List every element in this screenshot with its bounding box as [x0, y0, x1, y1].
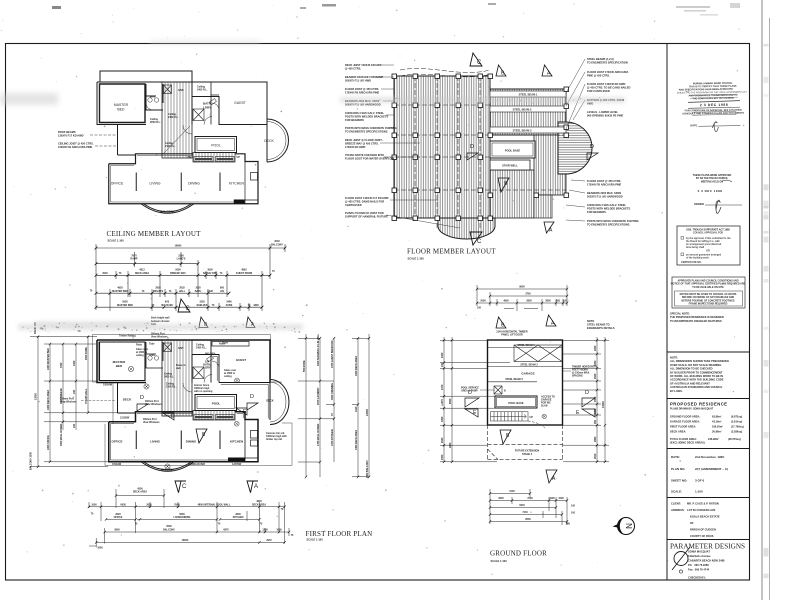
svg-text:190: 190: [73, 423, 76, 428]
fm dashed grid horizontals: [394, 68, 566, 230]
fm left leader lines: [375, 65, 460, 228]
svg-text:3700: 3700: [525, 293, 531, 296]
svg-text:LOT 60 CUDGERA AVE: LOT 60 CUDGERA AVE: [687, 508, 716, 512]
svg-text:70: 70: [142, 290, 145, 293]
ff guest robe box: [212, 342, 249, 347]
svg-text:70: 70: [248, 304, 251, 307]
svg-text:OVER SCALE. DO NOT SCALE DRAW: OVER SCALE. DO NOT SCALE DRAWING.: [670, 363, 722, 367]
svg-text:2nd November, 1995.: 2nd November, 1995.: [695, 455, 725, 459]
room divider stub living/dining: [180, 173, 182, 192]
svg-text:2400 R.L.: 2400 R.L.: [196, 347, 207, 350]
svg-text:TO ENGINEER'S SPECIFICATION: TO ENGINEER'S SPECIFICATION: [587, 60, 628, 64]
svg-text:170X45 FB ARICAURA PINE: 170X45 FB ARICAURA PINE: [345, 90, 380, 94]
eave outline thin: [93, 335, 293, 466]
svg-text:TO ENGINEER'S SPECIFICATIONS: TO ENGINEER'S SPECIFICATIONS: [587, 223, 630, 227]
svg-text:170X45 FB ARICAURA PINE: 170X45 FB ARICAURA PINE: [587, 182, 622, 186]
svg-text:POOL: POOL: [212, 402, 221, 406]
svg-text:POSTS WITH WELDED BRACKETS: POSTS WITH WELDED BRACKETS: [587, 206, 630, 210]
svg-text:13000: 13000: [35, 393, 38, 400]
svg-text:LIVING/DINING: LIVING/DINING: [173, 516, 190, 519]
gf marker A bottom: [546, 470, 557, 483]
svg-text:4200: 4200: [449, 442, 452, 448]
dim row 2 line ramp/lands: [96, 263, 198, 265]
svg-text:2/(7 (AMENDMENT – A): 2/(7 (AMENDMENT – A): [695, 467, 728, 471]
svg-text:FIRST FLOOR PLAN: FIRST FLOOR PLAN: [306, 530, 373, 538]
svg-text:2800: 2800: [526, 300, 532, 303]
svg-text:OFFICE: OFFICE: [114, 516, 123, 519]
ff bottom dimension rows: [89, 489, 289, 548]
fm marker C bottom: [470, 232, 482, 245]
ff laundry smudge boxes: [194, 415, 234, 420]
fm right mid block hatched: [534, 135, 566, 195]
svg-text:CEILING JOIST @ 450 CTRS.: CEILING JOIST @ 450 CTRS.: [58, 142, 94, 146]
gf right vertical chain: [563, 337, 609, 462]
svg-text:LDRY: LDRY: [204, 366, 211, 370]
divider 1: [667, 351, 750, 353]
svg-text:100: 100: [571, 512, 576, 515]
svg-text:C: C: [182, 484, 187, 490]
laundry smudge boxes under stairs: [194, 157, 234, 162]
guest room walls: [211, 82, 219, 125]
svg-text:timber top rail: timber top rail: [266, 438, 282, 441]
ff lower block outline: [109, 412, 258, 462]
fm deck semicircle hatched: [558, 122, 592, 174]
gf pump cross box: [494, 386, 502, 394]
gf lift door hatch: [514, 345, 562, 362]
room divider stub office/living: [135, 173, 137, 192]
svg-text:2120BLOUVER: 2120BLOUVER: [188, 463, 205, 466]
svg-text:8600: 8600: [519, 286, 525, 289]
svg-text:B: B: [202, 432, 206, 438]
dimension arrow ticks rows: [95, 247, 287, 309]
svg-text:200X75 F11 U/S HWD: 200X75 F11 U/S HWD: [345, 78, 371, 82]
breezeway / stair column: [162, 82, 192, 158]
ff stairs strip: [193, 411, 235, 421]
svg-text:1780 WALL RAISED: 1780 WALL RAISED: [317, 423, 320, 446]
ens fixtures circles: [146, 98, 216, 110]
svg-text:(26.579sq): (26.579sq): [728, 437, 741, 441]
svg-text:D: D: [250, 394, 254, 400]
svg-text:DECK: DECK: [266, 399, 273, 403]
svg-text:STEEL BEAMS (1,2,3): STEEL BEAMS (1,2,3): [587, 57, 614, 61]
ff breezeway hatch: [165, 340, 189, 416]
fm pool base rect: [490, 141, 535, 158]
svg-text:2100 R.L.: 2100 R.L.: [165, 145, 176, 148]
fm marker A bottom: [544, 222, 554, 233]
svg-text:2400 R.L.: 2400 R.L.: [197, 89, 208, 92]
ens cross box 1: [164, 85, 172, 94]
svg-text:30.86m²: 30.86m²: [712, 430, 722, 434]
svg-text:SHEET NO:: SHEET NO:: [671, 479, 687, 483]
svg-text:3790: 3790: [527, 497, 533, 500]
svg-text:2V80: 2V80: [174, 503, 180, 506]
svg-text:LDRY: LDRY: [203, 106, 211, 110]
svg-text:4900: 4900: [503, 300, 509, 303]
svg-text:1000: 1000: [91, 503, 97, 506]
compass rose: [613, 518, 635, 535]
svg-text:POOL BASE: POOL BASE: [505, 149, 520, 153]
svg-text:FIRST FLOOR AREA:: FIRST FLOOR AREA:: [670, 425, 696, 429]
svg-text:PLINTH TO END OF JOIST FOR: PLINTH TO END OF JOIST FOR: [345, 211, 384, 215]
svg-text:OF WORK. ALL BUILDING WORK TO: OF WORK. ALL BUILDING WORK TO BE IN: [670, 374, 723, 378]
svg-text:STEEL BEAM 2: STEEL BEAM 2: [520, 363, 538, 366]
svg-text:FOR CANTILEVER: FOR CANTILEVER: [587, 89, 610, 93]
svg-text:4140: 4140: [355, 406, 358, 412]
svg-text:with no opening: with no opening: [194, 390, 213, 393]
svg-text:4760 GUEST BEDROOM: 4760 GUEST BEDROOM: [331, 341, 334, 368]
svg-text:100X100X6.4 SHS GALV. STEEL: 100X100X6.4 SHS GALV. STEEL: [345, 111, 384, 115]
svg-text:SIGNED: SIGNED: [694, 202, 704, 206]
scan edge line 2: [769, 18, 771, 600]
svg-text:70: 70: [272, 270, 275, 273]
svg-text:BALCONY: BALCONY: [160, 210, 175, 214]
svg-text:KITCHEN: KITCHEN: [230, 440, 243, 444]
svg-text:7140: 7140: [522, 511, 528, 514]
svg-text:246.98m²: 246.98m²: [708, 437, 719, 441]
svg-text:A: A: [254, 484, 258, 490]
svg-text:BALCONY 1300: BALCONY 1300: [30, 452, 33, 470]
svg-text:FOR BEARERS: FOR BEARERS: [587, 210, 606, 214]
council approval stamp 1: [677, 82, 748, 133]
svg-text:2060: 2060: [594, 396, 597, 402]
svg-text:View Windows: View Windows: [151, 335, 168, 338]
svg-text:MASTER BED: MASTER BED: [117, 304, 133, 307]
svg-text:3600: 3600: [114, 528, 120, 531]
svg-text:70: 70: [291, 534, 294, 537]
svg-text:2 3 DEC 1988: 2 3 DEC 1988: [698, 189, 723, 193]
svg-text:2230: 2230: [594, 345, 597, 351]
svg-text:LIVING: LIVING: [150, 440, 161, 444]
fm section marker A top: [542, 65, 552, 76]
ff master bed walls: [100, 342, 146, 381]
svg-text:BATH/L'DRY: BATH/L'DRY: [203, 272, 218, 275]
svg-text:ENT: ENT: [178, 346, 184, 350]
svg-text:OF AUSTRALIA AND RELEVANT: OF AUSTRALIA AND RELEVANT: [670, 381, 710, 385]
svg-text:1500AW: 1500AW: [112, 463, 122, 466]
svg-text:TOTAL FLOOR AREA:: TOTAL FLOOR AREA:: [670, 437, 697, 441]
ff marker A bottom: [247, 481, 258, 493]
svg-text:PARAMETER DESIGNS: PARAMETER DESIGNS: [670, 543, 745, 551]
dim row 3 line: [96, 274, 270, 276]
svg-text:ceiling: ceiling: [136, 354, 144, 357]
divider 2: [667, 398, 750, 400]
svg-text:43.16m²: 43.16m²: [712, 420, 722, 424]
svg-text:FLOOR JOIST @ 450 CTRS.: FLOOR JOIST @ 450 CTRS.: [345, 87, 379, 91]
svg-text:MASTER: MASTER: [114, 103, 129, 107]
svg-text:550 ROBE: 550 ROBE: [303, 360, 306, 372]
svg-text:OFFICE: OFFICE: [112, 440, 123, 444]
ff right chain ticks: [305, 337, 370, 478]
svg-text:GARAGE FLOOR AREA:: GARAGE FLOOR AREA:: [670, 420, 700, 424]
divider 4: [667, 497, 750, 499]
svg-text:2640: 2640: [441, 437, 444, 443]
svg-text:GARAGE: GARAGE: [521, 372, 534, 376]
middle band walls: [118, 125, 268, 163]
svg-text:6970: 6970: [223, 528, 229, 531]
svg-text:ENS: ENS: [150, 95, 156, 99]
svg-text:wall: wall: [176, 367, 181, 370]
ff breezeway column: [162, 340, 192, 416]
svg-text:ceiling: ceiling: [224, 375, 232, 378]
svg-text:ALL DIMENSION TO BE CHECKED: ALL DIMENSION TO BE CHECKED: [670, 367, 713, 371]
svg-text:OFFICE: OFFICE: [111, 182, 124, 186]
scan smudges right margin: [676, 3, 769, 578]
svg-text:GUEST ROOM: GUEST ROOM: [236, 272, 252, 275]
svg-text:Ph: 066 76 2280: Ph: 066 76 2280: [688, 563, 709, 567]
fm lower right step hatched: [534, 195, 552, 218]
svg-text:AREA & PUMP: AREA & PUMP: [461, 390, 478, 393]
svg-text:3000 WALL RAISED: 3000 WALL RAISED: [60, 423, 63, 446]
svg-text:170X45 KD HWD: 170X45 KD HWD: [345, 145, 365, 149]
ff cross box ens: [164, 343, 172, 352]
svg-text:A: A: [552, 476, 556, 482]
svg-text:GROUND FLOOR AREA:: GROUND FLOOR AREA:: [670, 415, 700, 419]
ff left chain ticks: [37, 335, 89, 468]
svg-text:CERTIFICATE NO.: CERTIFICATE NO.: [681, 261, 702, 264]
svg-text:ROOF BEAMS: ROOF BEAMS: [58, 130, 76, 134]
svg-text:BY-LAWS.: BY-LAWS.: [670, 389, 683, 393]
svg-text:8 Bartletts Avenue: 8 Bartletts Avenue: [688, 554, 711, 558]
svg-text:1830 SHOWER LD LIN HALL: 1830 SHOWER LD LIN HALL: [317, 333, 320, 366]
svg-text:1070: 1070: [441, 384, 444, 390]
gf marker B top: [496, 317, 506, 328]
master bed room walls: [100, 84, 146, 123]
title block column divider: [666, 44, 668, 581]
svg-text:DECK: DECK: [123, 398, 132, 402]
svg-text:+1370: +1370: [441, 399, 444, 406]
lower block outline (office living dining kitchen): [109, 154, 258, 204]
svg-text:NOTE: NOTE: [587, 319, 594, 323]
svg-text:FLOOR JOIST 140X45 KD HWD: FLOOR JOIST 140X45 KD HWD: [587, 82, 625, 86]
svg-text:1500: 1500: [558, 497, 564, 500]
svg-text:3 OF 6: 3 OF 6: [695, 479, 705, 483]
gf bottom dims: [490, 489, 567, 525]
svg-text:3000 OPENING: 3000 OPENING: [331, 383, 334, 400]
fm bottom extension hatched: [438, 218, 495, 239]
svg-text:63.86m²: 63.86m²: [712, 415, 722, 419]
svg-text:BREEZE WAY @ 450 CTRS.: BREEZE WAY @ 450 CTRS.: [345, 141, 379, 145]
svg-text:18060: 18060: [175, 245, 182, 248]
svg-text:4300 DECK AREA: 4300 DECK AREA: [355, 356, 358, 376]
svg-text:LAND'S: LAND'S: [177, 258, 186, 261]
svg-text:Robe: Robe: [219, 343, 226, 346]
svg-text:NOTE:: NOTE:: [670, 356, 678, 360]
svg-text:1212DW: 1212DW: [120, 417, 130, 420]
floor areas list: [670, 415, 744, 445]
svg-text:UP: UP: [237, 156, 241, 159]
svg-text:DATE: DATE: [690, 123, 697, 127]
svg-text:B: B: [506, 433, 510, 439]
svg-text:4760 KITCHEN: 4760 KITCHEN: [331, 429, 334, 446]
council stamp 2: [693, 174, 742, 213]
svg-text:1500AW: 1500AW: [103, 384, 113, 387]
svg-text:DINING: DINING: [186, 440, 197, 444]
svg-text:SLAB: SLAB: [541, 405, 548, 408]
svg-text:POOL BASE: POOL BASE: [508, 401, 523, 405]
svg-text:LIVING: LIVING: [149, 182, 160, 186]
svg-text:1800: 1800: [594, 408, 597, 414]
svg-text:KITCHEN: KITCHEN: [233, 516, 244, 519]
svg-text:3030: 3030: [498, 497, 504, 500]
svg-text:COUNCIL APPROVAL FOR: COUNCIL APPROVAL FOR: [693, 232, 723, 235]
bath room walls: [192, 97, 219, 125]
svg-text:DECK AREA: DECK AREA: [252, 503, 266, 506]
svg-text:2000: 2000: [480, 300, 486, 303]
svg-text:PANEL LIFT DOOR: PANEL LIFT DOOR: [501, 334, 523, 337]
svg-text:A326: A326: [207, 290, 213, 293]
svg-text:FLOOR MEMBER LAYOUT: FLOOR MEMBER LAYOUT: [407, 248, 496, 256]
svg-text:1650: 1650: [276, 528, 282, 531]
gf left vertical chain: [440, 337, 510, 462]
leader roof beams: [90, 134, 117, 136]
svg-text:PROPOSED RESIDENCE: PROPOSED RESIDENCE: [670, 402, 727, 407]
svg-text:DECK JOIST 120X45 KD HWD: DECK JOIST 120X45 KD HWD: [345, 63, 382, 67]
svg-text:1400 BALCONY: 1400 BALCONY: [366, 460, 369, 478]
svg-text:BEARERS 3000 MAX. SPAN: BEARERS 3000 MAX. SPAN: [587, 191, 621, 195]
svg-text:ADDRESS:: ADDRESS:: [671, 508, 685, 512]
svg-text:STEEL BEAM 1: STEEL BEAM 1: [519, 93, 538, 97]
ff right dimension chains: [298, 334, 369, 477]
bath door arcs: [183, 103, 219, 134]
svg-text:6340: 6340: [519, 504, 525, 507]
gf top ticks: [476, 288, 568, 305]
svg-text:DECK AREA:: DECK AREA:: [670, 430, 686, 434]
svg-text:70 1125 HALL: 70 1125 HALL: [85, 388, 88, 404]
svg-text:KITCHEN: KITCHEN: [229, 182, 244, 186]
svg-text:SCALE:: SCALE:: [671, 490, 682, 494]
ff fixtures: [128, 356, 219, 470]
svg-text:POSTS INTO MASS CONCRETE FOOTI: POSTS INTO MASS CONCRETE FOOTING: [587, 219, 639, 223]
svg-text:FLOOR JOIST 170X45 ARICAURA: FLOOR JOIST 170X45 ARICAURA: [587, 70, 629, 74]
fm left annotations: [345, 63, 397, 218]
svg-text:D: D: [585, 390, 589, 396]
svg-text:2400 R.L.: 2400 R.L.: [164, 376, 175, 379]
svg-text:2020: 2020: [102, 272, 108, 275]
svg-text:800: 800: [566, 523, 571, 526]
svg-text:70: 70: [281, 508, 284, 511]
ff kitchen boxes: [251, 431, 258, 439]
svg-text:LEVELS - LOWER LEVEL: LEVELS - LOWER LEVEL: [587, 110, 619, 114]
svg-text:900 (600): 900 (600): [205, 353, 215, 356]
svg-text:70: 70: [135, 523, 138, 526]
svg-text:SUPPORT OF HANDRAIL FIXTURE: SUPPORT OF HANDRAIL FIXTURE: [345, 214, 388, 218]
svg-text:3762: 3762: [60, 362, 63, 368]
svg-text:STAGE 2: STAGE 2: [522, 453, 533, 456]
gf main outline: [488, 340, 563, 425]
svg-text:70: 70: [90, 290, 93, 293]
svg-text:2100 R.L.: 2100 R.L.: [166, 385, 177, 388]
svg-text:70: 70: [331, 413, 334, 416]
svg-text:(3.286sq): (3.286sq): [731, 430, 742, 434]
svg-text:CHECKED BY:: CHECKED BY:: [688, 576, 706, 580]
fm lower mid block hatched: [490, 170, 534, 218]
deck semicircle (upper right): [267, 119, 289, 162]
svg-text:2030: 2030: [594, 373, 597, 379]
ff upper band outline: [97, 340, 270, 383]
svg-text:ACCORDANCE WITH THE BUILDING C: ACCORDANCE WITH THE BUILDING CODE: [670, 378, 724, 382]
svg-text:1800: 1800: [253, 304, 259, 307]
gf pool base: [495, 396, 537, 408]
svg-text:STEEL BEAMS TO: STEEL BEAMS TO: [587, 322, 610, 326]
svg-text:2330: 2330: [441, 352, 444, 358]
svg-text:1000: 1000: [73, 360, 76, 366]
gf top dim rows: [477, 285, 567, 311]
svg-text:900: 900: [594, 419, 597, 424]
svg-text:STEEL BEAM 2: STEEL BEAM 2: [513, 108, 532, 112]
svg-text:2 3 DEC 1988: 2 3 DEC 1988: [700, 103, 729, 107]
svg-text:BED: BED: [118, 108, 126, 112]
ff inner wall lines: [99, 342, 268, 460]
svg-text:TO ENGINEER'S SPECIFICATIONS: TO ENGINEER'S SPECIFICATIONS: [345, 129, 388, 133]
svg-text:B: B: [504, 390, 506, 393]
svg-text:Timber Railing: Timber Railing: [119, 335, 136, 338]
dim row 5 line: [96, 306, 262, 308]
svg-text:ENS.: ENS.: [149, 353, 155, 357]
svg-text:MEETING HELD ON: MEETING HELD ON: [701, 180, 724, 183]
ens partition walls: [146, 84, 163, 110]
svg-text:SPECIAL NOTE:: SPECIAL NOTE:: [670, 312, 690, 316]
leader ceiling joist: [95, 145, 117, 147]
ff bottom ticks: [88, 494, 290, 544]
svg-text:1227DW: 1227DW: [232, 463, 242, 466]
svg-text:CLIENT:: CLIENT:: [671, 502, 681, 506]
kitchen bench dark bar: [234, 200, 245, 204]
svg-text:DECK JOIST @ FLOOR JOIST -: DECK JOIST @ FLOOR JOIST -: [345, 138, 384, 142]
svg-text:of the building work.: of the building work.: [686, 257, 710, 260]
svg-text:BALCONY: BALCONY: [163, 528, 175, 531]
svg-text:C: C: [477, 239, 482, 245]
svg-text:100: 100: [441, 362, 444, 367]
svg-text:(3.814sq): (3.814sq): [731, 420, 742, 424]
svg-text:Fax: 066 76 4744: Fax: 066 76 4744: [688, 568, 710, 572]
svg-text:2P30 R.L.: 2P30 R.L.: [150, 121, 161, 124]
svg-text:SHELVES: SHELVES: [197, 304, 208, 307]
svg-text:1500: 1500: [441, 454, 444, 460]
svg-text:SCALE 1:100: SCALE 1:100: [491, 559, 508, 563]
bath cross box 2: [193, 109, 204, 121]
svg-text:70: 70: [91, 513, 94, 516]
svg-text:200X75 F11 U/S HARDWOOD: 200X75 F11 U/S HARDWOOD: [587, 194, 623, 198]
svg-text:3000 BREEZE: 3000 BREEZE: [60, 388, 63, 404]
svg-text:CABARITA BEACH NSW 2488: CABARITA BEACH NSW 2488: [688, 559, 725, 563]
svg-text:DECK: DECK: [264, 139, 274, 143]
svg-text:D: D: [470, 144, 474, 150]
svg-text:TO INCORPORATE DISABLED FEATUR: TO INCORPORATE DISABLED FEATURES: [670, 319, 722, 323]
svg-text:BREEZE WAY: BREEZE WAY: [170, 272, 186, 275]
ff pool rect: [195, 395, 237, 411]
svg-text:MR. P. CAGE & P. RATION: MR. P. CAGE & P. RATION: [687, 502, 719, 506]
pool inner rect: [197, 139, 235, 151]
svg-text:2670 LAUNDRY: 2670 LAUNDRY: [317, 387, 320, 405]
ff right rotated dims: [303, 333, 369, 478]
gf marker A top: [546, 315, 556, 326]
svg-text:PLAN NO.: PLAN NO.: [671, 467, 686, 471]
svg-text:BATH: BATH: [195, 290, 202, 293]
svg-text:KOALA BEACH ESTATE: KOALA BEACH ESTATE: [690, 515, 720, 519]
svg-text:CEILING MEMBER LAYOUT: CEILING MEMBER LAYOUT: [107, 230, 202, 238]
fm post squares: [392, 74, 569, 221]
svg-text:FRAME INSPECTIONS REQUIRED: FRAME INSPECTIONS REQUIRED: [689, 303, 728, 306]
svg-text:C: C: [477, 60, 482, 66]
svg-text:400: 400: [556, 300, 561, 303]
svg-text:73: 73: [169, 290, 172, 293]
svg-text:C: C: [186, 306, 191, 312]
svg-text:BED: BED: [116, 364, 123, 368]
svg-text:N: N: [625, 523, 634, 529]
svg-text:4360 OFFICE: 4360 OFFICE: [47, 435, 50, 450]
svg-text:5100: 5100: [509, 490, 515, 493]
ff left rotated dims: [30, 322, 89, 470]
